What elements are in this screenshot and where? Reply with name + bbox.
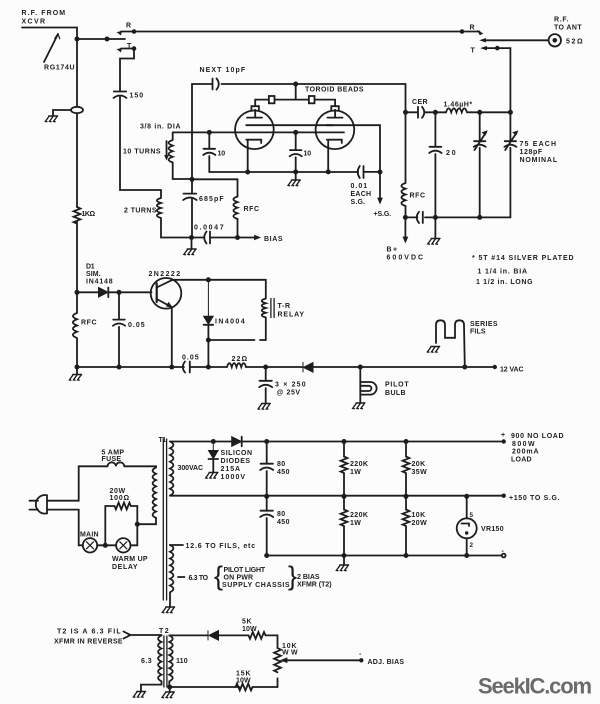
svg-text:0.01: 0.01: [351, 183, 368, 190]
svg-text:20K: 20K: [412, 461, 426, 468]
svg-text:RELAY: RELAY: [278, 312, 305, 319]
svg-text:TO ANT: TO ANT: [554, 25, 582, 32]
inductor RFC bias: [233, 197, 237, 238]
wire diode to 5K: [219, 634, 249, 636]
svg-text:ADJ. BIAS: ADJ. BIAS: [368, 659, 405, 666]
terminal +900: [502, 439, 506, 443]
svg-text:5K: 5K: [242, 619, 252, 626]
node 20K mid: [404, 494, 409, 499]
diode IN4004: [204, 280, 214, 324]
node R contact: [132, 29, 137, 34]
terminal ADJ BIAS: [359, 658, 363, 662]
wire line cord top: [47, 466, 108, 500]
svg-text:R.F.: R.F.: [554, 17, 569, 24]
wire bleeder ground: [343, 556, 345, 566]
svg-text:SILICON: SILICON: [221, 450, 253, 457]
node pilot junction: [358, 365, 363, 370]
svg-text:685pF: 685pF: [199, 196, 224, 203]
svg-text:100Ω: 100Ω: [110, 495, 130, 502]
svg-text:SIM.: SIM.: [86, 271, 101, 278]
node D1 anode: [75, 290, 80, 295]
svg-text:BIAS: BIAS: [264, 236, 283, 243]
switch S1b R contact: [462, 31, 480, 33]
terminal +150: [502, 494, 506, 498]
pilot bulb: [360, 382, 376, 395]
node tank top b: [508, 110, 513, 115]
svg-text:15K: 15K: [236, 671, 251, 678]
svg-text:1000V: 1000V: [221, 474, 246, 481]
wire vertical feed line: [191, 84, 193, 238]
capacitor CER: [418, 107, 424, 118]
node VR150 bottom: [464, 553, 469, 558]
svg-text:5: 5: [470, 512, 474, 519]
svg-text:SUPPLY CHASSIS: SUPPLY CHASSIS: [222, 582, 290, 589]
SECTION: tubes: [203, 100, 382, 204]
svg-text:XFMR IN REVERSE: XFMR IN REVERSE: [54, 639, 123, 646]
ground: [258, 404, 270, 410]
svg-text:10: 10: [218, 151, 226, 158]
svg-text:215A: 215A: [221, 466, 241, 473]
wire slug arrow 10 TURNS: [166, 141, 168, 158]
tube V2 plate cap: [331, 100, 339, 118]
node 3x250 junction: [263, 365, 268, 370]
svg-text:T: T: [127, 43, 132, 50]
wire T contact to capacitor 150: [120, 49, 134, 92]
svg-text:+: +: [501, 432, 506, 439]
ground: [45, 116, 57, 122]
node resistor shunt: [103, 543, 108, 548]
lamp MAIN: [83, 538, 97, 552]
node T contact right: [495, 46, 500, 51]
resistor 1K: [74, 207, 81, 292]
node bias junction right: [235, 235, 240, 240]
wire to TR switch pole: [77, 38, 125, 40]
svg-text:2 BIAS: 2 BIAS: [297, 574, 320, 581]
svg-text:10: 10: [304, 151, 312, 158]
node VR150 top: [464, 494, 469, 499]
svg-text:RFC: RFC: [81, 320, 97, 327]
node T contact: [132, 46, 137, 51]
toroid bead left: [269, 96, 275, 103]
ground: [162, 607, 174, 613]
node bias junction left: [189, 235, 194, 240]
svg-text:WARM UP: WARM UP: [112, 556, 148, 563]
node cap80a top: [264, 439, 269, 444]
wire RG174U pointer arrow: [44, 34, 58, 62]
tube V1 screen grid: [246, 124, 273, 126]
svg-text:BULB: BULB: [385, 390, 406, 397]
svg-text:FUSE: FUSE: [102, 456, 122, 463]
svg-text:220K: 220K: [350, 461, 368, 468]
transformer T1 HV winding 300VAC: [170, 442, 173, 496]
wire 12.6 tap: [170, 544, 183, 546]
wire pilot stub: [359, 367, 361, 403]
svg-text:PILOT LIGHT: PILOT LIGHT: [224, 567, 266, 574]
ground: [427, 347, 439, 353]
node IN4004 bottom: [206, 338, 211, 343]
wire screen bus to SG cap: [274, 125, 381, 172]
svg-text:DELAY: DELAY: [112, 564, 138, 571]
svg-text:220K: 220K: [350, 512, 368, 519]
SECTION: power supply: [30, 437, 506, 613]
variable capacitor tune: [474, 112, 486, 217]
svg-text:PILOT: PILOT: [385, 382, 409, 389]
svg-text:200mA: 200mA: [512, 449, 539, 456]
wire B+ arrow: [404, 217, 406, 238]
svg-text:0.05: 0.05: [128, 322, 145, 329]
capacitor 80/450 b: [260, 496, 273, 555]
resistor 5K 10W: [249, 632, 266, 639]
svg-text:52Ω: 52Ω: [566, 39, 583, 46]
tube V2 screen grid chord: [327, 124, 334, 126]
svg-text:NEXT 10pF: NEXT 10pF: [200, 67, 246, 74]
inductor 2 TURNS link: [157, 190, 192, 238]
svg-text:600VDC: 600VDC: [387, 255, 424, 262]
wire secondary ground stub: [169, 687, 171, 692]
node feed bottom: [190, 177, 195, 182]
svg-text:T: T: [471, 48, 476, 55]
svg-text:-: -: [502, 548, 505, 555]
svg-text:XCVR: XCVR: [22, 19, 46, 26]
series fils heater loop: [436, 320, 465, 367]
wire primary bottom link: [137, 518, 156, 524]
wire ground stub cathode: [295, 172, 297, 180]
node series fils rail: [462, 365, 467, 370]
svg-text:1 1/4 in. BIA: 1 1/4 in. BIA: [478, 269, 528, 276]
capacitor 10 a: [203, 132, 215, 172]
svg-text:22Ω: 22Ω: [232, 356, 248, 363]
svg-text:10 TURNS: 10 TURNS: [123, 149, 161, 156]
switch S1b pole to connector: [484, 39, 548, 41]
transformer T1 LV winding: [170, 545, 173, 607]
svg-text:3 × 250: 3 × 250: [275, 382, 306, 389]
capacitor 80/450 a: [260, 442, 273, 497]
svg-text:800W: 800W: [512, 441, 535, 448]
inductor 22 ohm: [227, 363, 246, 367]
transformer T2 primary 6.3: [141, 635, 162, 691]
node collector IN4004: [206, 277, 211, 282]
node relay rail: [206, 365, 211, 370]
tube V1 plate: [247, 117, 262, 119]
ground: [353, 403, 365, 409]
svg-text:10W: 10W: [236, 678, 251, 685]
wire bottom rail: [267, 555, 501, 557]
svg-text:10W: 10W: [242, 626, 257, 633]
resistor 15K 10W: [235, 684, 252, 691]
regulator VR150: [466, 496, 468, 518]
transistor Q1 2N2222: [151, 278, 182, 309]
wire bottom 15K run: [169, 686, 277, 688]
node base junction: [117, 290, 122, 295]
svg-text:R.F. FROM: R.F. FROM: [22, 10, 66, 17]
diode D1 1N4148: [99, 288, 109, 298]
svg-text:2 TURNS: 2 TURNS: [124, 208, 157, 215]
inductor RFC plate: [401, 112, 405, 217]
svg-text:FILS: FILS: [470, 329, 486, 336]
tube V1 envelope: [235, 111, 274, 150]
SECTION: RF input top-left: [22, 28, 462, 293]
terminal 12VAC: [493, 365, 497, 369]
wire T2 top to diode: [169, 634, 207, 636]
wire collector: [172, 279, 266, 281]
svg-text:IN4004: IN4004: [215, 319, 245, 326]
wire 6.3 tap dash: [178, 576, 185, 578]
wire mid rail: [170, 495, 502, 497]
wire emitter down: [171, 307, 173, 367]
svg-text:1.46µH*: 1.46µH*: [444, 102, 473, 109]
capacitor 20: [429, 112, 441, 217]
resistor 100 ohm shunt: [105, 503, 137, 546]
svg-text:0.05: 0.05: [182, 355, 199, 362]
wire toroid bead line: [255, 84, 335, 100]
svg-text:1W: 1W: [350, 469, 361, 476]
resistor 220K 1W a: [341, 442, 348, 497]
svg-text:RFC: RFC: [244, 206, 260, 213]
svg-text:3/8 in. DIA: 3/8 in. DIA: [140, 124, 181, 131]
ground: [428, 239, 440, 245]
svg-text:VR150: VR150: [481, 526, 504, 533]
wire CER line: [406, 111, 447, 113]
svg-text:0.0047: 0.0047: [194, 225, 224, 232]
switch S1a R contact: [121, 31, 134, 33]
tube V2 envelope: [316, 111, 355, 150]
wire HV top to diode: [170, 441, 232, 443]
wire +SG arrow: [379, 172, 381, 199]
lamp WARM UP DELAY: [116, 538, 130, 552]
node 220K a top: [342, 439, 347, 444]
capacitor 150: [114, 92, 127, 99]
wire NEXT 10pF line: [192, 84, 406, 112]
wire RFC bias top: [192, 179, 238, 196]
capacitor 0.01 EACH SG: [358, 166, 364, 178]
node 20 bottom: [433, 215, 438, 220]
svg-text:WW: WW: [282, 650, 298, 657]
svg-text:+150 TO S.G.: +150 TO S.G.: [509, 495, 560, 502]
SECTION: transistor keyer: [69, 277, 497, 409]
wire fuse to T1 primary: [124, 466, 156, 467]
node plate feed: [403, 110, 408, 115]
resistor 220K 1W b: [341, 496, 348, 555]
svg-text:T1: T1: [159, 437, 167, 444]
svg-text:20W: 20W: [412, 520, 428, 527]
svg-text:LOAD: LOAD: [511, 457, 532, 464]
switch S1a T contact: [121, 48, 134, 50]
svg-text:IN4148: IN4148: [86, 279, 113, 286]
ground: [184, 249, 196, 255]
potentiometer 10K WW: [274, 648, 281, 687]
svg-text:12.6 TO FILS, etc: 12.6 TO FILS, etc: [186, 543, 256, 550]
svg-text:10K: 10K: [412, 512, 426, 519]
svg-text:1KΩ: 1KΩ: [82, 211, 96, 218]
transformer T1 primary winding: [153, 468, 156, 518]
node toroid feed: [293, 82, 298, 87]
ground: [206, 473, 218, 479]
wire to BIAS arrow: [238, 237, 257, 239]
svg-text:CER: CER: [412, 99, 428, 106]
SECTION: output tank / antenna: [401, 29, 561, 244]
wiper arrow: [287, 659, 360, 661]
svg-text:NOMINAL: NOMINAL: [520, 157, 558, 164]
svg-text:DIODES: DIODES: [221, 458, 251, 465]
node input junction: [75, 37, 80, 42]
svg-text:B+: B+: [387, 247, 398, 254]
wire delay to primary: [131, 524, 138, 545]
diode silicon shunt: [209, 442, 219, 459]
wire cathode line: [209, 171, 380, 173]
svg-text:SeekIC.com: SeekIC.com: [478, 674, 592, 699]
node R contact right: [460, 29, 465, 34]
svg-text:150: 150: [130, 93, 144, 100]
wire line cord bottom: [47, 510, 83, 546]
wire tank bottom: [405, 216, 510, 218]
node bottom rail cap: [264, 553, 269, 558]
wire 5K to pot: [266, 635, 278, 648]
wire rail ground stub: [76, 367, 78, 375]
node 220K b bottom: [342, 553, 347, 558]
wire ground stub 685: [191, 238, 193, 250]
node cathode bypass: [293, 169, 298, 174]
svg-text:80: 80: [277, 511, 286, 518]
node SG junction: [378, 170, 383, 175]
capacitor 685pF: [183, 194, 196, 200]
ground: [69, 375, 81, 381]
svg-text:@ 25V: @ 25V: [277, 390, 301, 397]
wire B+ rail: [242, 441, 502, 443]
svg-text:TOROID BEADS: TOROID BEADS: [305, 87, 364, 94]
terminal minus: [502, 554, 506, 558]
svg-text:RFC: RFC: [410, 193, 426, 200]
wire T2 input chevron: [124, 632, 162, 639]
wire D1 to base node: [108, 291, 151, 293]
svg-text:T2 IS A 6.3 FIL: T2 IS A 6.3 FIL: [57, 629, 121, 636]
capacitor 10 b: [290, 132, 302, 172]
inductor 1.46uH: [446, 108, 510, 112]
wire ground 20: [434, 217, 436, 238]
svg-text:6.3 TO: 6.3 TO: [189, 575, 209, 582]
capacitor 0.05 emitter: [183, 362, 190, 373]
transformer T2 secondary 110: [169, 635, 172, 687]
wire relay return: [208, 340, 254, 367]
node primary bottom: [135, 522, 140, 527]
variable capacitor load: [504, 112, 516, 217]
svg-text:RG174U: RG174U: [44, 65, 75, 72]
svg-text:128pF: 128pF: [520, 149, 543, 156]
svg-text:T2: T2: [159, 628, 169, 635]
resistor 20K 35W: [403, 442, 410, 497]
node tank top a: [477, 110, 482, 115]
svg-text:R: R: [126, 23, 131, 30]
node grid cap 10 a: [207, 130, 212, 135]
svg-text:1 1/2 in. LONG: 1 1/2 in. LONG: [476, 279, 533, 286]
relay core bars: [271, 299, 274, 318]
svg-text:+S.G.: +S.G.: [374, 211, 392, 218]
node cap80a bottom: [264, 494, 269, 499]
toroid bead right: [309, 96, 315, 103]
svg-text:S.G.: S.G.: [351, 199, 366, 206]
svg-text:-: -: [359, 651, 362, 658]
capacitor NEXT 10pF: [213, 79, 219, 90]
svg-text:12 VAC: 12 VAC: [500, 367, 524, 374]
wire cap 150 to link coil: [120, 97, 161, 191]
transformer T2 core: [164, 636, 167, 687]
wire R contact to antenna switch: [134, 31, 462, 33]
resistor 10K 20W: [403, 496, 410, 555]
node 20K top: [404, 439, 409, 444]
svg-text:1W: 1W: [350, 520, 361, 527]
svg-text:D1: D1: [86, 264, 95, 271]
node rail left: [75, 365, 80, 370]
svg-text:110: 110: [176, 658, 188, 665]
ground: [162, 692, 174, 698]
svg-text:MAIN: MAIN: [80, 532, 99, 539]
node 220K mid: [342, 494, 347, 499]
node T2 secondary bottom: [167, 685, 172, 690]
svg-text:EACH: EACH: [351, 191, 372, 198]
svg-text:80: 80: [277, 461, 286, 468]
node diode junction: [211, 439, 216, 444]
tube V2 cathode: [327, 140, 342, 172]
node emitter rail: [169, 365, 174, 370]
svg-text:SERIES: SERIES: [470, 321, 498, 328]
capacitor 0.05 base: [113, 292, 125, 367]
diode 12VAC rectifier: [303, 362, 313, 372]
node 10K bottom: [404, 553, 409, 558]
svg-text:20W: 20W: [110, 488, 126, 495]
transformer T1 core: [163, 439, 166, 600]
svg-text:6.3: 6.3: [141, 658, 152, 665]
svg-text:35W: 35W: [412, 469, 428, 476]
svg-text:2: 2: [470, 542, 474, 549]
svg-text:450: 450: [277, 469, 290, 476]
svg-text:ON PWR: ON PWR: [224, 575, 254, 582]
node 0.05 bottom: [117, 365, 122, 370]
coax connector RF to ant: [549, 34, 561, 46]
capacitor 3x250: [259, 367, 272, 404]
capacitor plate bypass: [417, 212, 423, 223]
svg-text:75 EACH: 75 EACH: [520, 141, 557, 148]
fuse 5 AMP: [108, 462, 125, 466]
node cathode V2: [326, 169, 331, 174]
wire shield to ground: [53, 110, 71, 116]
node cathode V1: [245, 170, 250, 175]
coax shield RG174U: [71, 107, 83, 113]
node B+ junction: [403, 215, 408, 220]
svg-text:20: 20: [446, 150, 456, 157]
node grid cap 10 b: [293, 130, 298, 135]
svg-text:* 5T #14 SILVER PLATED: * 5T #14 SILVER PLATED: [472, 255, 574, 262]
svg-text:R: R: [470, 25, 475, 32]
wire T contact down to tank: [497, 48, 510, 112]
wire to D1: [77, 291, 98, 293]
node switch pole: [105, 37, 110, 42]
wire main to delay: [97, 544, 116, 546]
inductor tank 10 TURNS box: [169, 133, 192, 179]
node tune bottom: [477, 215, 482, 220]
switch S1b T contact: [485, 47, 497, 49]
AC plug: [36, 495, 47, 514]
svg-text:300VAC: 300VAC: [178, 465, 204, 472]
wire input vertical bus: [76, 39, 78, 207]
tube V2 plate: [328, 117, 343, 119]
svg-text:900 NO LOAD: 900 NO LOAD: [511, 433, 564, 440]
tube V1 plate cap: [251, 100, 259, 118]
svg-text:2N2222: 2N2222: [149, 271, 181, 278]
svg-text:XFMR (T2): XFMR (T2): [297, 582, 332, 589]
svg-text:450: 450: [277, 519, 290, 526]
tube V1 cathode: [246, 140, 261, 172]
ground: [133, 692, 145, 698]
wire RF from XCVR input: [22, 28, 77, 40]
